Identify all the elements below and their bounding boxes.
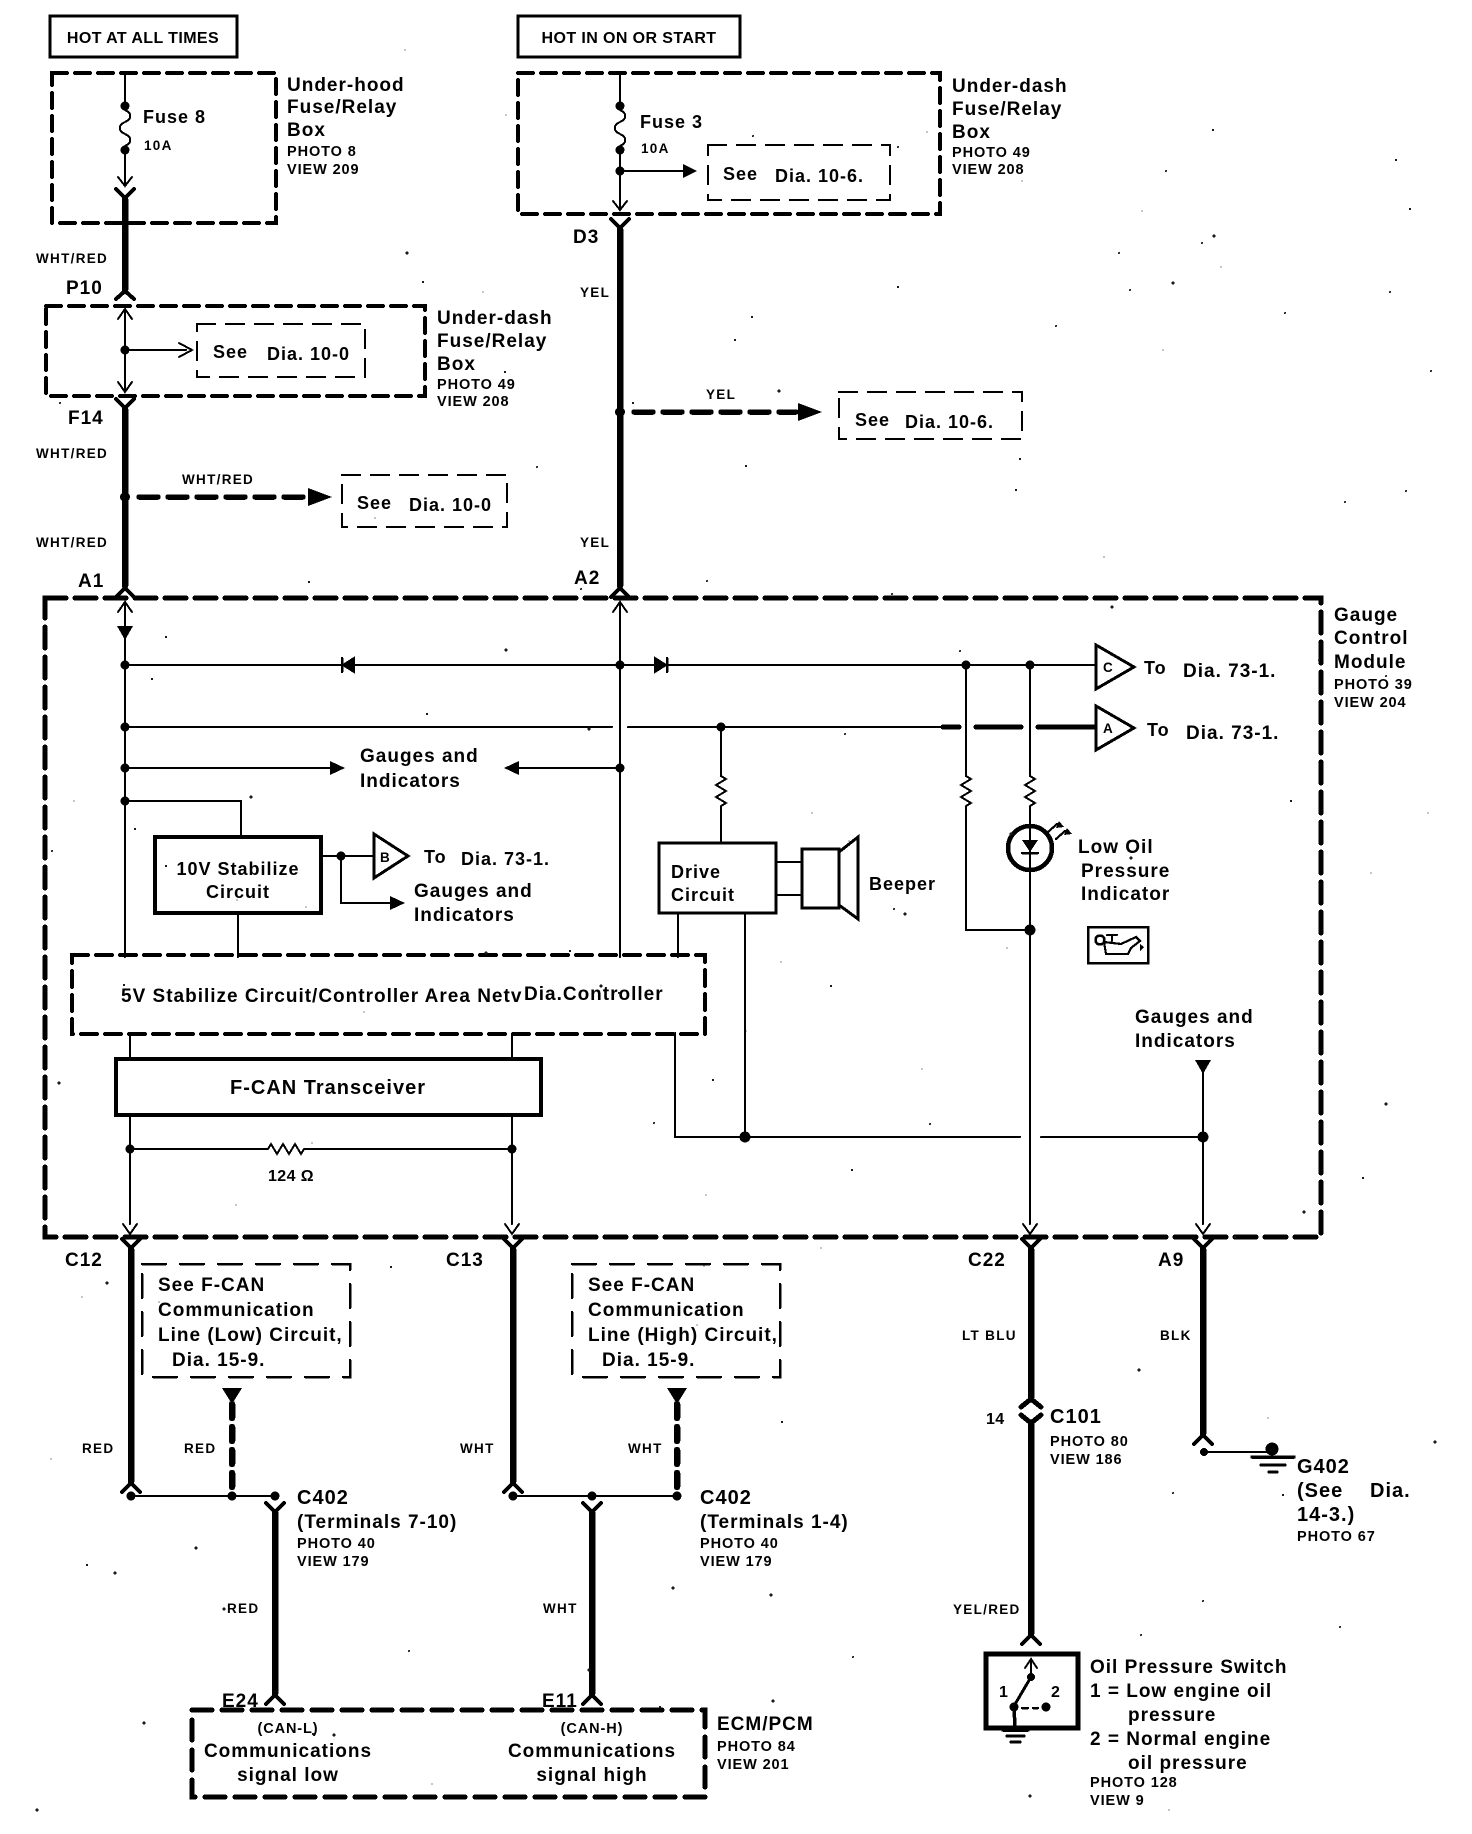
svg-text:Communication: Communication	[158, 1300, 315, 1321]
svg-text:C22: C22	[968, 1250, 1006, 1271]
svg-text:VIEW 208: VIEW 208	[437, 394, 509, 410]
svg-text:(CAN-L): (CAN-L)	[257, 1721, 318, 1737]
svg-text:WHT/RED: WHT/RED	[36, 251, 108, 266]
svg-text:2 = Normal engine: 2 = Normal engine	[1090, 1729, 1271, 1750]
svg-text:Dia. 10-0: Dia. 10-0	[267, 344, 350, 364]
svg-text:VIEW 179: VIEW 179	[297, 1554, 369, 1570]
svg-text:WHT/RED: WHT/RED	[36, 446, 108, 461]
svg-text:VIEW 9: VIEW 9	[1090, 1793, 1145, 1809]
wire WHT/RED fuse8 to P10	[36, 189, 134, 299]
svg-text:F-CAN Transceiver: F-CAN Transceiver	[230, 1077, 426, 1099]
svg-text:D3: D3	[573, 227, 599, 248]
svg-text:5V Stabilize Circuit/Controlle: 5V Stabilize Circuit/Controller Area Net…	[121, 986, 522, 1007]
svg-text:Box: Box	[952, 122, 991, 143]
fuse F8 10A	[118, 74, 206, 186]
svg-text:10A: 10A	[144, 138, 173, 153]
wire bus line 1 (y=665)	[125, 658, 1096, 672]
svg-text:A2: A2	[574, 568, 600, 589]
reference box See Dia. 10-0 (upper)	[197, 324, 365, 377]
oil pressure switch	[986, 1654, 1078, 1742]
svg-text:Dia. 10-6.: Dia. 10-6.	[905, 412, 994, 432]
svg-text:VIEW 209: VIEW 209	[287, 162, 359, 178]
svg-text:PHOTO 67: PHOTO 67	[1297, 1529, 1376, 1545]
node A1 entry	[117, 602, 133, 957]
svg-text:Gauges and: Gauges and	[360, 746, 479, 767]
connector A9 / wire BLK	[1158, 1239, 1212, 1444]
label gauges and indicators (A9)	[1135, 1007, 1254, 1234]
wire WHT to E11	[542, 1503, 601, 1712]
svg-text:Indicators: Indicators	[1135, 1031, 1236, 1052]
svg-text:PHOTO 84: PHOTO 84	[717, 1739, 796, 1755]
svg-text:signal high: signal high	[536, 1765, 647, 1786]
svg-text:Fuse/Relay: Fuse/Relay	[437, 331, 547, 352]
reference box See Dia. 10-6 (lower)	[839, 392, 1022, 439]
svg-text:Communications: Communications	[204, 1741, 372, 1762]
svg-text:Box: Box	[287, 120, 326, 141]
svg-text:Line (High) Circuit,: Line (High) Circuit,	[588, 1325, 778, 1346]
svg-text:VIEW 186: VIEW 186	[1050, 1452, 1122, 1468]
svg-text:Beeper: Beeper	[869, 874, 936, 894]
svg-text:Dia.Controller: Dia.Controller	[524, 984, 664, 1005]
wire 10V box bottom to 5V box	[237, 913, 239, 957]
svg-text:Box: Box	[437, 354, 476, 375]
connector D3 / wire YEL	[573, 219, 629, 597]
svg-text:10A: 10A	[641, 141, 670, 156]
svg-text:14: 14	[986, 1411, 1005, 1428]
beeper	[776, 837, 936, 919]
svg-text:Circuit: Circuit	[671, 885, 735, 905]
svg-text:Pressure: Pressure	[1081, 861, 1170, 882]
svg-text:VIEW 204: VIEW 204	[1334, 695, 1406, 711]
svg-text:LT BLU: LT BLU	[962, 1328, 1017, 1343]
svg-text:To: To	[1144, 658, 1167, 678]
svg-text:HOT IN ON OR START: HOT IN ON OR START	[542, 30, 717, 47]
ECM/PCM box	[192, 1710, 814, 1797]
svg-text:C13: C13	[446, 1250, 484, 1271]
10V stabilize circuit box	[155, 837, 321, 913]
svg-text:PHOTO 39: PHOTO 39	[1334, 677, 1413, 693]
svg-text:See: See	[855, 410, 890, 430]
svg-text:A: A	[1103, 721, 1114, 736]
svg-text:(See: (See	[1297, 1480, 1343, 1502]
reference box See F-CAN (High)	[572, 1264, 780, 1377]
svg-text:RED: RED	[227, 1601, 259, 1616]
low oil pressure indicator lamp	[1008, 821, 1170, 905]
svg-text:Dia. 10-6.: Dia. 10-6.	[775, 166, 864, 186]
svg-text:Drive: Drive	[671, 862, 721, 882]
svg-text:YEL: YEL	[580, 535, 610, 550]
svg-text:Dia. 73-1.: Dia. 73-1.	[1186, 723, 1279, 744]
svg-text:124 Ω: 124 Ω	[268, 1168, 314, 1185]
svg-text:Communications: Communications	[508, 1741, 676, 1762]
wire inside box P10-F14	[118, 309, 192, 392]
svg-text:YEL/RED: YEL/RED	[953, 1602, 1021, 1617]
svg-text:PHOTO 128: PHOTO 128	[1090, 1775, 1178, 1791]
junction + dashed arrow WHT/RED to See Dia. 10-0	[120, 472, 332, 506]
node C402 left junction	[127, 1487, 458, 1570]
svg-text:C402: C402	[700, 1487, 752, 1509]
gauge control module box	[45, 598, 1413, 1237]
svg-text:Low Oil: Low Oil	[1078, 837, 1154, 858]
reference box See Dia. 10-6 (upper)	[708, 145, 890, 200]
svg-text:PHOTO 49: PHOTO 49	[437, 377, 516, 393]
svg-text:F14: F14	[68, 408, 104, 429]
svg-text:Indicator: Indicator	[1081, 884, 1170, 905]
svg-text:Dia.: Dia.	[1370, 1480, 1411, 1502]
svg-text:Module: Module	[1334, 652, 1407, 673]
svg-text:To: To	[424, 847, 447, 867]
svg-text:Dia. 15-9.: Dia. 15-9.	[602, 1350, 695, 1371]
svg-text:VIEW 208: VIEW 208	[952, 162, 1024, 178]
svg-text:See: See	[213, 342, 248, 362]
resistor above drive circuit	[716, 727, 726, 843]
svg-text:C402: C402	[297, 1487, 349, 1509]
connector C101	[953, 1406, 1129, 1644]
svg-text:Circuit: Circuit	[206, 882, 270, 902]
svg-text:WHT: WHT	[460, 1441, 495, 1456]
svg-text:See: See	[357, 493, 392, 513]
svg-text:(CAN-H): (CAN-H)	[561, 1721, 624, 1737]
svg-text:VIEW 201: VIEW 201	[717, 1757, 789, 1773]
svg-text:B: B	[380, 850, 391, 865]
svg-text:Communication: Communication	[588, 1300, 745, 1321]
svg-text:HOT AT ALL TIMES: HOT AT ALL TIMES	[67, 30, 219, 47]
svg-text:Oil Pressure Switch: Oil Pressure Switch	[1090, 1657, 1287, 1678]
connector C22 / wire LT BLU	[962, 1239, 1041, 1407]
svg-text:Dia. 10-0: Dia. 10-0	[409, 495, 492, 515]
svg-text:signal low: signal low	[237, 1765, 339, 1786]
svg-text:1 = Low engine oil: 1 = Low engine oil	[1090, 1681, 1272, 1702]
triangle A to Dia. 73-1	[1096, 706, 1279, 750]
svg-text:BLK: BLK	[1160, 1328, 1192, 1343]
under-dash fuse/relay box (left, P10-F14)	[46, 306, 553, 410]
resistor right (above lamp, x=1030)	[1025, 665, 1035, 826]
dashed wire from See F-CAN high box	[628, 1388, 687, 1490]
label HOT IN ON OR START	[518, 16, 740, 57]
svg-text:YEL: YEL	[706, 387, 736, 402]
svg-text:PHOTO 40: PHOTO 40	[700, 1536, 779, 1552]
reference box See F-CAN (Low)	[142, 1264, 350, 1377]
branch arrow to See Dia. 10-6 (inside fuse box)	[616, 164, 698, 178]
svg-text:RED: RED	[184, 1441, 216, 1456]
under-dash fuse/relay box (fuse 3)	[518, 73, 1068, 214]
svg-text:oil pressure: oil pressure	[1128, 1753, 1248, 1774]
svg-text:C101: C101	[1050, 1406, 1102, 1428]
svg-text:PHOTO 49: PHOTO 49	[952, 145, 1031, 161]
svg-text:To: To	[1147, 720, 1170, 740]
svg-text:1: 1	[999, 1684, 1008, 1701]
resistor left (above junction, to line1 x=966)	[961, 665, 1030, 930]
svg-text:Control: Control	[1334, 628, 1409, 649]
wire bottom bus (y=1137)	[675, 1033, 1203, 1143]
connector C12 / wire RED	[65, 1239, 140, 1492]
svg-text:Gauge: Gauge	[1334, 605, 1398, 626]
svg-text:Dia. 15-9.: Dia. 15-9.	[172, 1350, 265, 1371]
svg-text:Under-dash: Under-dash	[952, 76, 1068, 97]
svg-text:Indicators: Indicators	[360, 771, 461, 792]
wires drive circuit bottom	[678, 913, 745, 1137]
svg-text:14-3.): 14-3.)	[1297, 1504, 1355, 1526]
svg-text:Gauges and: Gauges and	[1135, 1007, 1254, 1028]
5V stabilize circuit / CAN controller box	[72, 955, 705, 1034]
junction + dashed arrow YEL to See Dia. 10-6	[615, 387, 822, 421]
arrow to gauges and indicators (from B node)	[341, 856, 533, 926]
svg-text:ECM/PCM: ECM/PCM	[717, 1714, 814, 1735]
connector C13 / wire WHT	[446, 1239, 522, 1492]
under-hood fuse/relay box	[52, 73, 405, 223]
drive circuit box	[659, 843, 776, 913]
svg-text:C12: C12	[65, 1250, 103, 1271]
svg-text:Gauges and: Gauges and	[414, 881, 533, 902]
resistor 124 ohm	[123, 1115, 519, 1234]
svg-text:(Terminals 1-4): (Terminals 1-4)	[700, 1512, 849, 1533]
triangle B to Dia. 73-1	[321, 834, 550, 878]
svg-text:Indicators: Indicators	[414, 905, 515, 926]
svg-text:PHOTO 40: PHOTO 40	[297, 1536, 376, 1552]
svg-text:Under-dash: Under-dash	[437, 308, 553, 329]
svg-text:pressure: pressure	[1128, 1705, 1216, 1726]
svg-text:(Terminals 7-10): (Terminals 7-10)	[297, 1512, 457, 1533]
svg-text:10V Stabilize: 10V Stabilize	[176, 859, 299, 879]
svg-text:WHT: WHT	[628, 1441, 663, 1456]
svg-text:See F-CAN: See F-CAN	[158, 1275, 265, 1296]
svg-text:RED: RED	[82, 1441, 114, 1456]
connector F14 / wire WHT/RED	[36, 399, 134, 597]
reference box See Dia. 10-0 (lower)	[342, 475, 507, 527]
svg-text:Dia. 73-1.: Dia. 73-1.	[1183, 661, 1276, 682]
triangle C to Dia. 73-1	[1096, 645, 1276, 689]
fuse F3 10A	[613, 74, 703, 210]
wire bus line 2 (y=727)	[125, 723, 1096, 732]
wire lamp down to C22 exit	[1023, 870, 1037, 1234]
ground G402	[1200, 1443, 1411, 1546]
node A2 entry	[613, 602, 627, 957]
svg-text:PHOTO 8: PHOTO 8	[287, 144, 357, 160]
svg-text:See: See	[723, 164, 758, 184]
svg-text:Fuse/Relay: Fuse/Relay	[287, 97, 397, 118]
oil can icon	[1088, 927, 1148, 963]
node C402 right junction	[509, 1487, 849, 1570]
svg-text:Fuse 3: Fuse 3	[640, 112, 703, 132]
svg-text:WHT/RED: WHT/RED	[36, 535, 108, 550]
svg-text:G402: G402	[1297, 1456, 1350, 1478]
wire to 10V stabilize circuit	[125, 801, 241, 837]
svg-text:WHT: WHT	[543, 1601, 578, 1616]
svg-text:Line (Low) Circuit,: Line (Low) Circuit,	[158, 1325, 343, 1346]
F-CAN transceiver box	[116, 1034, 541, 1115]
svg-text:PHOTO 80: PHOTO 80	[1050, 1434, 1129, 1450]
svg-text:C: C	[1103, 660, 1114, 675]
svg-text:Fuse 8: Fuse 8	[143, 107, 206, 127]
svg-text:2: 2	[1051, 1684, 1060, 1701]
oil pressure switch labels	[1090, 1657, 1287, 1809]
svg-text:YEL: YEL	[580, 285, 610, 300]
svg-text:Fuse/Relay: Fuse/Relay	[952, 99, 1062, 120]
svg-text:See F-CAN: See F-CAN	[588, 1275, 695, 1296]
svg-text:A9: A9	[1158, 1250, 1184, 1271]
svg-text:Under-hood: Under-hood	[287, 75, 405, 96]
svg-text:VIEW 179: VIEW 179	[700, 1554, 772, 1570]
wire gauges/indicators line 3 (y=768)	[125, 746, 620, 792]
svg-text:WHT/RED: WHT/RED	[182, 472, 254, 487]
label HOT AT ALL TIMES	[50, 16, 237, 57]
svg-text:P10: P10	[66, 278, 103, 299]
dashed wire from See F-CAN low box	[184, 1388, 242, 1490]
svg-text:A1: A1	[78, 571, 104, 592]
svg-text:Dia. 73-1.: Dia. 73-1.	[461, 849, 550, 869]
wire RED to E24	[222, 1503, 284, 1712]
